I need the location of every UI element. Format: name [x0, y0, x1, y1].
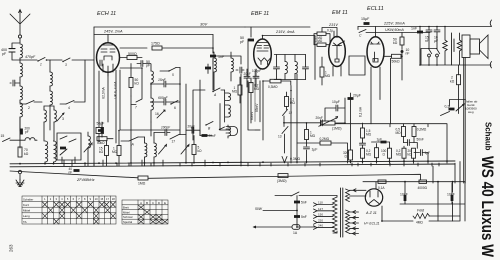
- resistor 5k: [192, 145, 196, 155]
- svg-text:100pF: 100pF: [161, 126, 171, 130]
- switch 8: [60, 136, 67, 139]
- wire plate: [263, 36, 316, 80]
- svg-text:ECH 11: ECH 11: [97, 11, 116, 17]
- switch A: [212, 88, 220, 92]
- node 30V bus: [94, 26, 310, 28]
- svg-text:1µF: 1µF: [312, 148, 318, 152]
- svg-text:17: 17: [106, 197, 109, 201]
- coil sec 2: [228, 105, 230, 117]
- svg-text:85mV: 85mV: [255, 103, 259, 112]
- wire right pair: [464, 58, 466, 184]
- svg-text:50kΩ: 50kΩ: [392, 60, 400, 64]
- resistor 100: [388, 148, 392, 158]
- table1 frame: [22, 196, 116, 224]
- svg-text:1µF: 1µF: [425, 151, 431, 155]
- capacitor small left: [13, 80, 15, 86]
- capacitor IF2 r: [303, 67, 309, 69]
- wire v14: [306, 123, 308, 163]
- resistor 2M a: [317, 32, 326, 35]
- wire coil links: [225, 90, 228, 138]
- svg-text:µF: µF: [434, 39, 438, 43]
- svg-text:E: E: [164, 201, 166, 205]
- capacitor 10nF: [401, 50, 404, 53]
- svg-text:pF: pF: [240, 40, 245, 44]
- capacitor 10uF2: [434, 30, 440, 32]
- svg-text:UK V, 4 mA: UK V, 4 mA: [114, 81, 118, 99]
- svg-text:2MΩ: 2MΩ: [316, 39, 323, 43]
- table1 labels: [23, 197, 33, 223]
- wire v2: [120, 68, 142, 105]
- resistor 0.2M d: [402, 148, 406, 158]
- node bottom rail: [421, 62, 492, 68]
- wire bus right drop: [433, 163, 455, 183]
- svg-text:1: 1: [40, 63, 42, 67]
- svg-text:82,9mA: 82,9mA: [102, 87, 106, 99]
- svg-text:13: 13: [278, 135, 282, 139]
- bus line 3 diag: [10, 171, 421, 180]
- trimmer 19: [181, 145, 189, 155]
- coil L1 antenna: [20, 44, 22, 58]
- wire v13: [263, 74, 297, 163]
- resistor 1.5M: [361, 128, 365, 138]
- switch 1: [37, 58, 45, 62]
- wire az11 top: [358, 182, 465, 196]
- resistor 500: [127, 56, 137, 60]
- potentiometer 1M: [321, 121, 335, 125]
- op box left wire: [93, 35, 95, 167]
- wire to band switch: [20, 59, 94, 61]
- resistor 15k: [105, 146, 109, 156]
- svg-text:7: 7: [135, 106, 137, 110]
- switch 9: [69, 139, 76, 142]
- svg-text:7: 7: [78, 197, 80, 201]
- switch 13: [282, 127, 288, 134]
- svg-text:5: 5: [172, 73, 174, 77]
- trimmer L9: [84, 143, 92, 152]
- svg-text:(3MΩ): (3MΩ): [277, 179, 287, 183]
- bus line 2: [10, 164, 455, 167]
- capacitor 5nF a: [294, 201, 300, 204]
- coil L6: [50, 91, 52, 105]
- svg-text:17: 17: [172, 140, 176, 144]
- capacitor 15nF: [164, 81, 166, 87]
- svg-text:0,3MΩ: 0,3MΩ: [290, 157, 301, 161]
- svg-text:220: 220: [318, 219, 323, 223]
- svg-text:20nF: 20nF: [316, 116, 323, 120]
- transformer secondary top: [346, 189, 350, 202]
- switch k: [437, 49, 440, 54]
- resistor 175: [120, 47, 147, 49]
- wire v6: [221, 77, 240, 103]
- table1 header numbers: [44, 197, 115, 201]
- svg-text:Mittel: Mittel: [123, 210, 130, 214]
- svg-text:0,3MΩ: 0,3MΩ: [268, 85, 278, 89]
- resistor 3M bus: [278, 174, 288, 178]
- wire af line: [284, 122, 321, 124]
- resistor 50k: [129, 78, 133, 88]
- tube ECL11: [367, 37, 384, 68]
- svg-text:600pF: 600pF: [158, 96, 169, 100]
- svg-text:5nF: 5nF: [301, 201, 307, 205]
- node 225V bus: [358, 20, 492, 27]
- wire: [10, 117, 37, 148]
- secondary top taps: [350, 189, 358, 196]
- svg-text:A: A: [213, 93, 217, 97]
- capacitor 400pF: [9, 43, 20, 60]
- resistor 0.2M mid: [320, 141, 331, 145]
- svg-text:kΩ: kΩ: [99, 150, 104, 154]
- svg-text:(1MΩ): (1MΩ): [332, 127, 342, 131]
- svg-text:4: 4: [61, 197, 63, 201]
- switch mains: [291, 192, 337, 196]
- transformer secondary bottom: [346, 210, 350, 233]
- svg-text:MΩ: MΩ: [310, 134, 316, 138]
- svg-text:0,2MΩ: 0,2MΩ: [320, 137, 330, 141]
- svg-text:3: 3: [55, 197, 57, 201]
- wire v8: [213, 56, 241, 162]
- resistor wavy 2: [457, 33, 461, 65]
- svg-text:225V; 30mA: 225V; 30mA: [383, 22, 405, 26]
- resistor 1M bus: [138, 176, 148, 180]
- box stubs: [62, 157, 75, 163]
- wire screen drop: [212, 35, 214, 54]
- switch 3: [62, 58, 70, 62]
- wire af upper: [335, 124, 447, 163]
- svg-text:50kΩ: 50kΩ: [97, 141, 105, 145]
- svg-text:1A: 1A: [293, 231, 298, 235]
- coil osc T2: [231, 58, 233, 72]
- bus junction dots: [19, 26, 453, 228]
- svg-text:WS 40 Luxus W: WS 40 Luxus W: [478, 156, 496, 257]
- coil IF2a: [285, 62, 287, 74]
- coil T2a: [145, 143, 147, 157]
- svg-text:1: 1: [44, 197, 46, 201]
- coil osc B: [151, 98, 153, 110]
- coil sec 1: [228, 93, 231, 101]
- wire ecl drop: [390, 58, 392, 123]
- svg-text:18: 18: [112, 197, 115, 201]
- svg-text:Schmal: Schmal: [123, 215, 133, 219]
- capacitor 1uF c: [421, 150, 423, 156]
- svg-text:9: 9: [90, 197, 92, 201]
- trimmer T2: [159, 145, 167, 155]
- svg-text:MΩ: MΩ: [232, 90, 238, 94]
- wire v7: [220, 104, 228, 131]
- wire: [333, 31, 341, 76]
- resistor 4000: [419, 180, 427, 183]
- table2 X marks: [138, 205, 167, 224]
- svg-text:2: 2: [28, 106, 30, 110]
- wire mains left: [254, 226, 315, 228]
- table2 header: [140, 201, 166, 205]
- secondary bottom taps: [350, 212, 359, 234]
- switch 4: [66, 101, 74, 105]
- coil L9: [88, 136, 90, 148]
- wire v5: [186, 59, 213, 163]
- svg-text:H= ECL11: H= ECL11: [364, 222, 380, 226]
- capacitor 600pF: [164, 99, 166, 105]
- IFT2 window: [274, 55, 305, 80]
- resistor 0.2M v: [249, 83, 253, 93]
- svg-text:110: 110: [318, 201, 323, 205]
- resistor 1M left: [117, 146, 121, 156]
- svg-text:1MΩ: 1MΩ: [138, 182, 146, 186]
- svg-text:0,2MΩ: 0,2MΩ: [417, 128, 427, 132]
- svg-text:MΩ: MΩ: [366, 133, 372, 137]
- svg-text:MΩ: MΩ: [254, 87, 260, 91]
- svg-text:263: 263: [9, 244, 14, 252]
- switch C: [359, 30, 366, 33]
- svg-text:500Ω: 500Ω: [128, 52, 137, 56]
- svg-text:8,1 mA: 8,1 mA: [359, 106, 363, 117]
- box frame: [57, 133, 81, 160]
- coil L2: [20, 63, 22, 77]
- svg-text:EBF 11: EBF 11: [251, 11, 269, 17]
- resistor 2M b: [317, 43, 326, 46]
- capacitor trim: [240, 67, 242, 73]
- svg-text:nF: nF: [69, 170, 73, 174]
- resistor 0.5M: [402, 127, 406, 137]
- svg-text:10nF: 10nF: [406, 48, 410, 55]
- svg-text:12: 12: [289, 111, 293, 115]
- svg-text:15: 15: [1, 134, 5, 138]
- svg-text:UKW;50mA: UKW;50mA: [385, 28, 404, 32]
- table2 labels: [123, 206, 133, 224]
- svg-text:50µF: 50µF: [97, 122, 105, 126]
- speaker: [470, 35, 488, 59]
- switch B: [205, 122, 213, 126]
- trimmer 3: [57, 113, 64, 121]
- coil T2b: [154, 143, 156, 157]
- svg-text:100pF: 100pF: [252, 69, 261, 73]
- resistor 50k cathode: [392, 54, 402, 58]
- svg-text:kΩ: kΩ: [198, 149, 203, 153]
- svg-text:Lang: Lang: [23, 214, 30, 218]
- resistor 1M em: [320, 67, 324, 77]
- switch 2: [26, 101, 34, 105]
- switch 12: [283, 110, 288, 116]
- transformer core: [341, 188, 343, 237]
- capacitor in box: [60, 147, 66, 150]
- svg-text:MΩ: MΩ: [396, 153, 402, 157]
- coil L7: [44, 110, 46, 122]
- svg-text:470pF: 470pF: [25, 55, 36, 59]
- coil L4: [20, 103, 22, 117]
- resistor 0.3M h: [270, 79, 281, 83]
- svg-text:Breit: Breit: [123, 206, 129, 210]
- tube EBF11: [254, 39, 272, 69]
- svg-text:50W: 50W: [255, 207, 263, 211]
- wire v10: [255, 72, 260, 131]
- svg-text:16: 16: [155, 112, 159, 116]
- svg-text:4MΩ: 4MΩ: [416, 221, 423, 225]
- node rail 204: [400, 182, 465, 221]
- box em right: [349, 56, 365, 75]
- node junction: [283, 122, 285, 124]
- svg-text:6: 6: [73, 197, 75, 201]
- capacitor 15nF: [426, 30, 432, 32]
- wire right col: [438, 162, 460, 222]
- svg-text:3: 3: [62, 117, 64, 121]
- coil osc A: [151, 71, 153, 83]
- fuse 0.1A: [378, 180, 386, 183]
- svg-text:TA: TA: [23, 220, 27, 224]
- svg-text:15µF: 15µF: [361, 17, 370, 21]
- svg-text:1nF: 1nF: [411, 27, 418, 31]
- tube AZ11: [365, 189, 382, 206]
- svg-text:Ω: Ω: [345, 155, 348, 159]
- coil sec 3: [228, 127, 231, 136]
- svg-text:5nF: 5nF: [301, 215, 307, 219]
- capacitor plates tall: [452, 33, 455, 65]
- wire v11: [250, 78, 252, 123]
- svg-text:127: 127: [318, 207, 323, 211]
- resistor 0.1M v: [285, 97, 289, 107]
- capacitor 50pF grid: [141, 61, 143, 67]
- switch 9b: [220, 127, 225, 130]
- resistor wavy 1: [443, 27, 447, 65]
- svg-text:175Ω: 175Ω: [151, 42, 160, 46]
- coil IFT1b: [54, 141, 57, 162]
- capacitor 1uF b: [304, 147, 310, 149]
- svg-text:MΩ: MΩ: [366, 153, 372, 157]
- capacitor blob x102: [101, 127, 104, 133]
- svg-text:Ω: Ω: [383, 153, 386, 157]
- svg-text:pF: pF: [2, 52, 7, 56]
- resistor 20k: [412, 148, 416, 158]
- resistor 70k: [18, 147, 22, 157]
- svg-text:B: B: [208, 127, 211, 131]
- svg-text:5: 5: [67, 197, 69, 201]
- wire tube top: [107, 35, 109, 43]
- svg-text:Spezial: Spezial: [123, 220, 133, 224]
- resistor 50k screen: [400, 37, 404, 45]
- svg-text:kΩ: kΩ: [408, 153, 413, 157]
- resistor 1M osc: [238, 85, 242, 95]
- tap labels: [318, 201, 323, 228]
- svg-text:ECL11: ECL11: [367, 6, 384, 12]
- svg-text:240: 240: [318, 224, 323, 228]
- resistor 320: [349, 150, 353, 160]
- svg-text:50kΩ: 50kΩ: [135, 78, 140, 86]
- svg-text:0,1µ: 0,1µ: [327, 29, 333, 33]
- coil L8: [54, 110, 56, 122]
- svg-text:4000Ω: 4000Ω: [418, 186, 428, 190]
- svg-text:Mittel: Mittel: [23, 209, 31, 213]
- svg-text:nF: nF: [425, 39, 429, 43]
- svg-text:6: 6: [174, 106, 176, 110]
- capacitor 5nF b: [294, 215, 300, 218]
- bus ticks: [64, 160, 439, 166]
- switch 17: [170, 135, 179, 140]
- svg-text:EM 11: EM 11: [332, 10, 348, 16]
- capacitor 1nF: [210, 55, 216, 58]
- svg-text:MΩ: MΩ: [396, 131, 402, 135]
- wire v9: [248, 39, 260, 130]
- svg-text:D: D: [158, 201, 160, 205]
- coil IF2b: [295, 62, 297, 74]
- bus line 1: [10, 161, 455, 164]
- tube EM11: [329, 37, 346, 67]
- svg-text:50nF: 50nF: [417, 138, 424, 142]
- tube ECH11: [97, 43, 120, 76]
- svg-text:Schaub: Schaub: [484, 122, 493, 151]
- fuse 1A: [292, 225, 300, 230]
- svg-text:4: 4: [68, 106, 70, 110]
- svg-text:30V: 30V: [200, 22, 207, 27]
- switch A2: [129, 137, 138, 141]
- svg-text:150: 150: [318, 213, 323, 217]
- svg-text:0,1A: 0,1A: [378, 186, 385, 190]
- resistor 1M af: [305, 130, 309, 140]
- capacitor 200pF: [20, 129, 23, 135]
- svg-text:8: 8: [84, 197, 86, 201]
- svg-text:Feld: Feld: [417, 209, 425, 213]
- wire v4: [120, 70, 180, 135]
- node 245V bus: [94, 27, 213, 35]
- capacitor IF2 l: [274, 67, 280, 69]
- svg-text:pF: pF: [25, 130, 29, 134]
- svg-text:C: C: [359, 34, 362, 38]
- coil osc T1: [214, 58, 216, 72]
- svg-text:15nF: 15nF: [158, 78, 167, 82]
- wire tube pins: [99, 60, 116, 143]
- resistor 0.2M up: [412, 127, 416, 137]
- svg-text:10: 10: [95, 197, 98, 201]
- resistor 50k top: [97, 137, 107, 141]
- svg-text:20µF: 20µF: [353, 94, 361, 98]
- switch o: [429, 49, 432, 54]
- capacitor 50nF: [408, 140, 410, 146]
- node UKW bus: [358, 27, 430, 33]
- wire v3: [150, 122, 152, 136]
- transformer taps: [314, 203, 334, 230]
- transformer output box: [462, 35, 470, 58]
- resistor 0.2M c: [361, 148, 365, 158]
- ground arrow mid: [282, 157, 287, 163]
- coil IFT1a: [45, 141, 48, 162]
- svg-text:MΩ: MΩ: [325, 74, 331, 78]
- svg-text:215V, 4mA: 215V, 4mA: [275, 30, 295, 34]
- svg-text:weg: weg: [468, 110, 474, 114]
- coil L5: [50, 72, 52, 86]
- table1 X marks: [43, 202, 116, 224]
- resistor blank: [375, 148, 379, 158]
- antenna: [10, 10, 30, 43]
- wire feld: [382, 206, 460, 221]
- svg-text:1µF: 1µF: [377, 137, 383, 141]
- trimmer box: [60, 149, 67, 155]
- svg-text:15: 15: [100, 197, 103, 201]
- svg-text:Schalter: Schalter: [23, 197, 33, 201]
- svg-text:B: B: [146, 201, 148, 205]
- capacitor mid2: [360, 143, 366, 145]
- svg-text:Kurz: Kurz: [23, 203, 30, 207]
- svg-text:MΩ: MΩ: [112, 150, 118, 154]
- wire: [179, 68, 181, 131]
- svg-text:kΩ: kΩ: [450, 79, 455, 83]
- svg-text:A: A: [140, 201, 142, 205]
- svg-text:10µF: 10µF: [332, 100, 340, 104]
- capacitor 1uF blob: [381, 141, 387, 144]
- svg-text:ZF468kHz: ZF468kHz: [76, 178, 95, 182]
- ground: [16, 170, 24, 186]
- switch 5: [168, 68, 176, 72]
- svg-text:kΩ: kΩ: [24, 152, 29, 156]
- svg-text:C: C: [152, 201, 154, 205]
- svg-text:kΩ: kΩ: [393, 41, 398, 45]
- svg-text:231V: 231V: [328, 23, 338, 27]
